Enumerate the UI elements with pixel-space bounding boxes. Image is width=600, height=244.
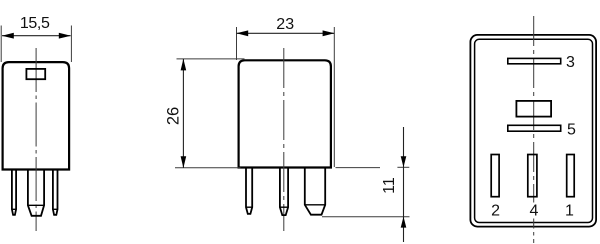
relay body (front view) (3, 62, 70, 169)
extension line left (23) (236, 27, 238, 60)
svg-text:2: 2 (491, 203, 500, 220)
relay body (side view) (239, 60, 331, 167)
dimension line 26 (182, 59, 184, 168)
svg-text:15,5: 15,5 (20, 15, 50, 32)
relay outer outline (bottom view) (470, 35, 596, 227)
svg-text:1: 1 (565, 203, 574, 220)
terminal slot 1 (567, 155, 575, 197)
marking window rectangle (26, 69, 45, 79)
pin left (front view) (12, 170, 16, 215)
dimension line 23 (237, 32, 335, 34)
svg-text:4: 4 (530, 203, 539, 220)
wide center pin (front view) (28, 170, 44, 216)
dimension line 11 (403, 127, 405, 242)
arrowhead 23 left (236, 30, 248, 36)
centerline (side view) (283, 48, 285, 231)
wide pin C (side view) (305, 169, 325, 215)
pin right (front view) (53, 170, 58, 215)
relay inner outline (bottom view) (475, 39, 593, 222)
extension line from body bottom (11) (336, 167, 381, 169)
arrowhead 26 top (181, 59, 187, 71)
extension line right (23) (333, 27, 335, 167)
svg-text:11: 11 (381, 177, 398, 194)
terminal slot 5 (508, 125, 561, 131)
arrowhead 11 bottom (401, 217, 407, 228)
arrowhead 15,5 right (59, 33, 71, 39)
arrowhead 26 bottom (181, 156, 187, 168)
extension line left (15,5) (0, 26, 2, 63)
extension line top (26) (177, 58, 245, 60)
coil block (516, 101, 551, 117)
tick at dimension line (11 top) (397, 166, 409, 168)
svg-text:23: 23 (276, 16, 294, 33)
dimension line 15,5 (2, 35, 71, 37)
terminal slot 3 (508, 58, 561, 63)
terminal slot 4 (528, 155, 537, 197)
svg-text:26: 26 (165, 107, 183, 125)
center pin B (side view) (280, 169, 288, 216)
centerline upper (bottom view) (533, 16, 535, 203)
arrowhead 23 right (323, 30, 335, 36)
narrow pin A (side view) (246, 169, 252, 214)
svg-text:5: 5 (567, 122, 576, 139)
terminal slot 2 (491, 155, 499, 197)
arrowhead 11 top (401, 156, 407, 167)
arrowhead 15,5 left (2, 33, 14, 39)
extension line right (15,5) (70, 26, 72, 63)
svg-text:3: 3 (566, 54, 575, 71)
centerline (front view) (35, 48, 37, 231)
centerline lower (bottom view) (533, 219, 535, 244)
extension line pin tip level (11) (322, 216, 410, 218)
extension line bottom (26) (175, 167, 241, 169)
